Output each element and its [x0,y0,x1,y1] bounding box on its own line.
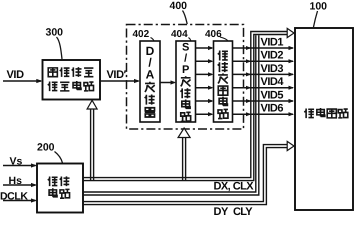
svg-text:VID′: VID′ [107,69,127,81]
dashed box 400 [127,25,244,130]
svg-text:VID: VID [7,69,25,81]
svg-text:400: 400 [170,0,188,12]
leader 200 [55,152,63,164]
svg-text:VID5: VID5 [261,89,284,101]
wire 402 to 404 [160,82,175,84]
open arrow into 300 [87,100,97,109]
bus C control (DY CLY) [83,145,288,202]
svg-text:402: 402 [133,29,150,40]
leader 100 [314,11,318,27]
leader 400 [183,11,188,25]
block 406 polarity inversion circuit [214,41,233,122]
svg-text:CLY: CLY [233,206,253,217]
bus branch to 300 [90,110,92,181]
svg-text:P: P [182,64,189,76]
wires 406 to panel VID1-6 [233,46,295,116]
svg-text:VID1: VID1 [261,36,284,48]
text 控制 [48,176,70,186]
text 图像信号 [48,67,93,77]
svg-text:100: 100 [310,1,328,13]
open arrow into panel top [287,28,294,37]
svg-text:404: 404 [171,29,188,40]
svg-text:VID3: VID3 [261,63,284,75]
svg-text:406: 406 [205,29,222,40]
block 200 control circuit [37,164,83,213]
svg-text:S: S [182,41,189,53]
block 100 LCD panel [295,28,353,210]
bus A control to panel top (DX) [83,32,288,178]
block 402 D/A converter [140,41,160,122]
svg-text:VID4: VID4 [261,76,285,88]
text 校正电路 [48,81,94,91]
block 300 image signal correction circuit [43,60,101,100]
bus branch to 404 [182,138,184,181]
svg-text:VID2: VID2 [261,50,284,62]
svg-text:A: A [146,68,155,82]
open arrow into 404 [178,128,190,138]
text 电路 [49,188,69,198]
wire DCLK [3,200,36,202]
leader 402 [151,38,155,42]
leader 404 [189,38,192,42]
wires 404 to 406 (6 lines) [196,46,214,116]
bus B control (CLX) [83,35,256,192]
open arrow into panel mid [287,141,294,150]
wire Hs [3,184,36,186]
svg-text:300: 300 [46,27,64,39]
text 液晶面板 [304,108,347,118]
wire VID' from 300 to 402 [100,80,139,82]
leader 406 [220,37,228,41]
svg-text:VID6: VID6 [261,103,284,115]
leader 300 [57,37,63,59]
wire Vs [3,165,36,167]
block 404 S/P converter [176,41,196,122]
svg-text:200: 200 [37,142,55,154]
svg-text:DX, CLX: DX, CLX [214,180,255,192]
svg-text:/: / [184,53,187,65]
svg-text:DY: DY [214,206,230,217]
wire VID input [3,80,41,82]
